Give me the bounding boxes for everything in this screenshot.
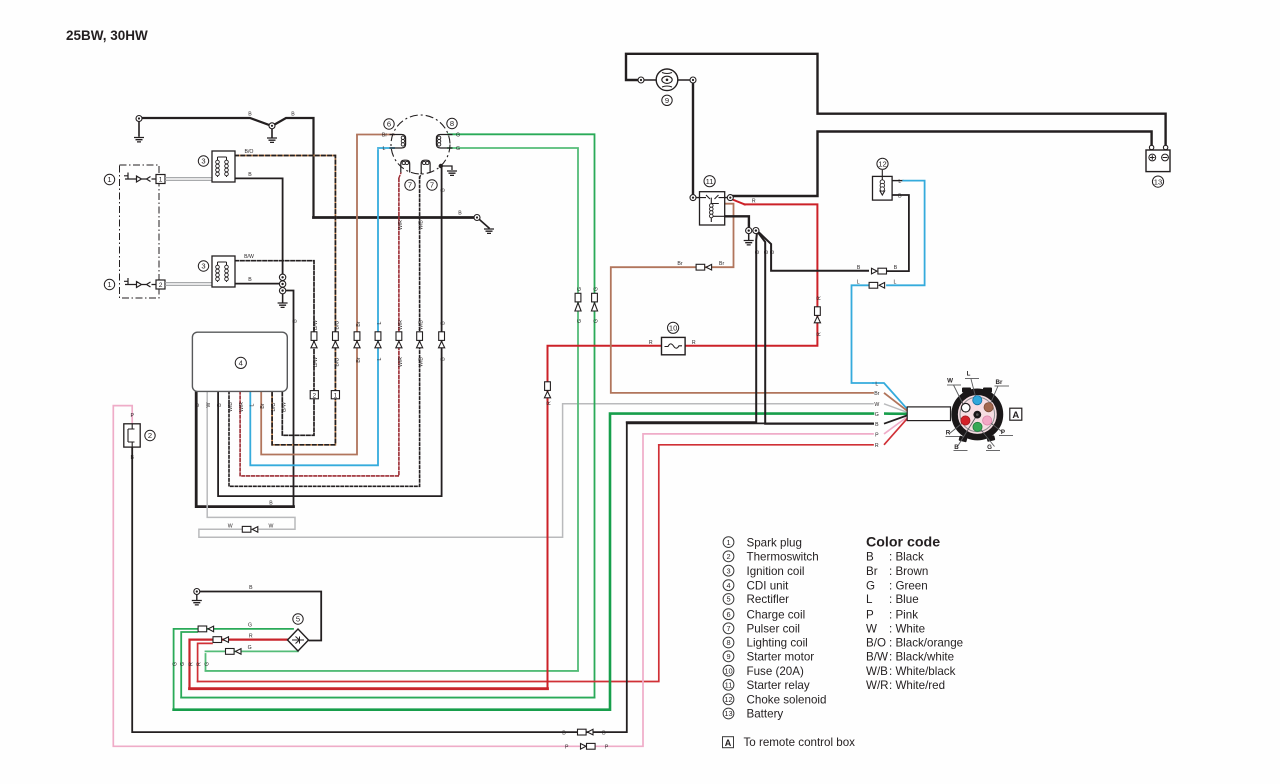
svg-text:R: R [189,662,195,666]
svg-text:B/O: B/O [334,358,340,367]
svg-text:B: B [441,188,447,192]
svg-text:7: 7 [430,181,434,190]
svg-text:R: R [875,443,879,449]
svg-text:R: R [249,633,253,639]
svg-text:To remote control box: To remote control box [744,736,856,749]
svg-text:L: L [898,179,901,185]
svg-text:Color code: Color code [866,535,940,551]
svg-text:1: 1 [107,175,111,184]
svg-text:W/R: W/R [866,679,889,692]
svg-text:P: P [866,608,874,621]
svg-text:G: G [248,645,252,651]
svg-text:Br: Br [866,565,878,578]
svg-text:Spark plug: Spark plug [747,536,802,549]
svg-text:10: 10 [724,666,732,675]
svg-text:P: P [875,432,879,438]
svg-text:W: W [206,402,212,407]
svg-text:3: 3 [201,262,205,271]
svg-text:B: B [248,112,252,118]
svg-text:: Black/white: : Black/white [889,651,954,664]
svg-text:P: P [605,745,609,751]
svg-text:R: R [547,401,553,405]
svg-text:3: 3 [201,157,205,166]
svg-text:12: 12 [724,695,732,704]
svg-text:: Pink: : Pink [889,608,918,621]
svg-text:B: B [249,585,253,591]
svg-text:B: B [130,455,134,461]
svg-text:B: B [562,730,566,736]
svg-text:B/W: B/W [313,357,319,367]
svg-text:L: L [377,357,383,360]
svg-text:W/R: W/R [398,320,404,330]
svg-text:Br: Br [260,403,266,408]
svg-text:25BW, 30HW: 25BW, 30HW [66,28,148,43]
svg-text:G: G [577,287,583,291]
svg-text:6: 6 [387,120,391,129]
svg-text:5: 5 [726,595,730,604]
svg-text:W/R: W/R [398,357,404,367]
svg-text:B: B [269,501,273,507]
svg-text:L: L [857,279,860,285]
svg-text:R: R [692,340,696,346]
svg-text:: Black/orange: : Black/orange [889,637,963,650]
svg-text:P: P [565,745,569,751]
svg-text:: Green: : Green [889,579,928,592]
svg-text:B: B [755,250,761,254]
svg-text:B/O: B/O [271,403,277,412]
svg-text:Br: Br [356,357,362,362]
svg-text:G: G [594,319,600,323]
svg-text:: Brown: : Brown [889,565,928,578]
svg-text:8: 8 [726,638,730,647]
svg-text:8: 8 [450,119,454,128]
svg-text:4: 4 [726,581,730,590]
svg-text:B: B [894,265,898,271]
svg-text:B/O: B/O [866,637,886,650]
svg-text:L: L [383,146,386,152]
svg-text:7: 7 [408,181,412,190]
svg-text:4: 4 [239,359,243,368]
svg-text:B: B [866,551,874,564]
svg-text:1: 1 [334,392,338,399]
svg-text:W/B: W/B [419,357,425,367]
svg-text:Lighting coil: Lighting coil [747,637,808,650]
svg-text:G: G [180,662,186,666]
svg-text:L: L [866,593,873,606]
svg-text:: White: : White [889,623,925,636]
svg-text:W/B: W/B [419,320,425,330]
svg-text:Charge coil: Charge coil [747,608,806,621]
svg-text:B: B [898,193,902,199]
svg-text:Br: Br [677,261,682,267]
svg-text:11: 11 [725,681,733,690]
svg-text:G: G [248,623,252,629]
svg-text:6: 6 [726,610,730,619]
svg-text:9: 9 [665,96,669,105]
svg-text:G: G [456,133,460,139]
svg-text:11: 11 [706,177,714,186]
svg-text:P: P [1001,429,1005,436]
svg-text:Br: Br [719,261,724,267]
svg-text:R: R [816,296,822,300]
svg-text:B: B [195,403,201,407]
svg-text:B: B [954,444,959,451]
svg-text:Thermoswitch: Thermoswitch [747,551,819,564]
svg-text:L: L [377,321,383,324]
svg-text:W/B: W/B [228,402,234,412]
svg-text:W/R: W/R [398,220,404,230]
svg-text:B/W: B/W [244,254,254,260]
svg-text:Br: Br [874,391,879,397]
svg-text:R: R [946,430,951,437]
svg-text:Starter relay: Starter relay [747,679,810,692]
svg-text:B: B [602,730,606,736]
svg-text:2: 2 [313,392,317,399]
svg-text:B: B [441,357,447,361]
svg-text:9: 9 [726,652,730,661]
svg-text:W: W [874,402,879,408]
svg-text:2: 2 [159,282,163,289]
svg-text:P: P [130,413,134,419]
svg-text:G: G [205,662,211,666]
svg-text:10: 10 [669,324,677,333]
svg-text:G: G [594,287,600,291]
svg-text:Br: Br [382,133,387,139]
svg-text:W: W [947,378,953,385]
svg-text:B/O: B/O [334,321,340,330]
svg-text:: White/red: : White/red [889,679,945,692]
svg-text:: White/black: : White/black [889,665,956,678]
svg-text:1: 1 [159,177,163,184]
svg-text:W: W [228,523,233,529]
svg-text:Pulser coil: Pulser coil [747,623,800,636]
svg-text:12: 12 [878,160,886,169]
svg-text:Rectifler: Rectifler [747,593,790,606]
svg-text:1: 1 [726,538,730,547]
svg-text:Br: Br [356,321,362,326]
svg-text:B/W: B/W [866,651,888,664]
svg-text:R: R [752,199,756,205]
svg-text:B: B [248,277,252,283]
svg-text:W/B: W/B [866,665,888,678]
svg-text:7: 7 [726,624,730,633]
svg-text:B: B [441,321,447,325]
svg-text:G: G [875,412,879,418]
svg-text:G: G [577,319,583,323]
svg-text:B: B [770,250,776,254]
svg-text:R: R [649,340,653,346]
svg-text:B: B [217,403,223,407]
svg-text:B: B [458,211,462,217]
svg-text:B: B [857,265,861,271]
svg-text:L: L [875,381,878,387]
svg-text:Fuse (20A): Fuse (20A) [747,665,804,678]
svg-text:CDI unit: CDI unit [747,579,790,592]
svg-text:5: 5 [296,615,300,624]
svg-text:A: A [725,738,732,748]
svg-text:3: 3 [726,566,730,575]
svg-text:13: 13 [724,709,732,718]
svg-text:G: G [173,662,179,666]
svg-text:B/W: B/W [281,402,287,412]
svg-text:: Black: : Black [889,551,924,564]
svg-text:2: 2 [726,552,730,561]
svg-text:B: B [248,172,252,178]
svg-text:L: L [967,371,971,378]
svg-text:: Blue: : Blue [889,593,919,606]
svg-text:B/O: B/O [245,149,254,155]
svg-text:R: R [816,332,822,336]
svg-text:G: G [987,444,992,451]
svg-text:G: G [456,146,460,152]
svg-text:B: B [293,319,299,323]
svg-text:Choke solenoid: Choke solenoid [747,694,827,707]
svg-text:Battery: Battery [747,708,784,721]
svg-text:W: W [268,523,273,529]
svg-text:Starter motor: Starter motor [747,651,815,664]
svg-text:W/B: W/B [419,220,425,230]
svg-text:R: R [197,662,203,666]
svg-text:G: G [866,579,875,592]
svg-text:A: A [1012,410,1019,421]
svg-text:Ignition coil: Ignition coil [747,565,805,578]
svg-text:Br: Br [996,379,1003,386]
svg-text:2: 2 [148,431,152,440]
svg-text:W: W [866,623,877,636]
svg-text:13: 13 [1154,177,1162,186]
svg-text:B/W: B/W [313,320,319,330]
svg-text:B: B [875,422,879,428]
svg-text:L: L [893,279,896,285]
svg-text:W/R: W/R [239,402,245,412]
svg-text:1: 1 [107,280,111,289]
svg-text:B: B [291,112,295,118]
svg-text:L: L [249,403,255,406]
